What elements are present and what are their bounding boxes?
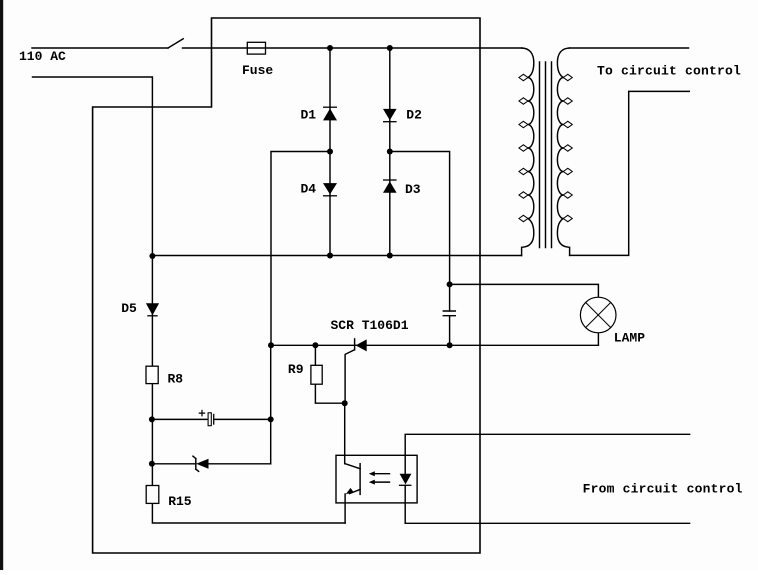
wire: secondary bottom lead up and right to circuit control — [570, 91, 690, 255]
opto LED triangle — [400, 474, 412, 485]
electrolytic capacitor C2 minus plate — [213, 414, 215, 425]
opto photon arrowheads — [369, 471, 375, 476]
SCR gate lead — [345, 350, 355, 404]
left screen border bar — [0, 0, 3, 570]
svg-text:D3: D3 — [405, 182, 421, 197]
optocoupler U1 box — [336, 455, 417, 503]
diode D1 — [323, 107, 337, 120]
wire: R9 bottom lead to gate node — [315, 384, 344, 403]
svg-text:LAMP: LAMP — [614, 331, 645, 346]
svg-text:110 AC: 110 AC — [19, 49, 66, 64]
wire: zener leads — [152, 463, 271, 465]
wire: electrolytic cap left lead — [152, 418, 208, 420]
transformer primary coupling diamonds — [519, 74, 528, 221]
resistor R15 body — [146, 486, 159, 504]
wire: snubber cap top segment — [449, 284, 451, 311]
wire: SCR anode-cathode rail — [271, 344, 598, 346]
wire: lamp top feed — [450, 284, 599, 297]
wire: 110 AC neutral + left column down to bottom — [33, 77, 346, 523]
opto emitter arrowhead — [346, 488, 354, 495]
svg-text:D4: D4 — [301, 182, 317, 197]
wire: snubber cap bottom segment — [449, 316, 451, 346]
wire: bridge mid-right tap to x=449.6 and down — [390, 152, 450, 285]
wire: bridge right column — [389, 48, 391, 256]
wire: bridge left column — [329, 48, 331, 256]
wire: hot to transformer primary — [183, 47, 522, 49]
wire: bridge mid-left tap to x=271 and down — [271, 152, 330, 346]
svg-text:R9: R9 — [288, 362, 304, 377]
opto LED cathode bar — [399, 484, 412, 486]
switch SW blade — [168, 39, 183, 48]
svg-text:SCR T106D1: SCR T106D1 — [331, 318, 409, 333]
electrolytic capacitor C2 plus plate box — [208, 413, 211, 426]
zener diode DZ cathode bar — [193, 456, 199, 471]
diode D5 — [146, 303, 159, 316]
transformer T1 core — [540, 62, 552, 248]
svg-text:From circuit control: From circuit control — [583, 482, 743, 497]
opto phototransistor emitter lead — [350, 489, 361, 493]
wire: opto emitter down to bottom rail — [344, 494, 346, 523]
svg-text:R15: R15 — [168, 494, 192, 509]
svg-text:D1: D1 — [301, 107, 317, 122]
SCR cathode bar — [354, 339, 356, 350]
resistor R8 body — [146, 366, 158, 383]
SCR T106D1 triangle — [356, 339, 367, 351]
opto phototransistor collector lead — [345, 464, 360, 469]
wire: secondary top lead to circuit control — [569, 47, 688, 49]
transformer T1 secondary winding — [557, 48, 569, 255]
svg-text:R8: R8 — [168, 371, 184, 386]
fuse F1 body — [247, 42, 265, 54]
wire: R9 top lead — [314, 345, 316, 365]
wire: lamp bottom return — [597, 333, 599, 345]
wire: electrolytic cap right lead — [214, 418, 271, 420]
capacitor C1 plates — [443, 311, 455, 316]
diode D3 — [383, 180, 397, 193]
wire: bottom rail of bridge to transformer primary bottom — [152, 255, 521, 257]
wire: opto LED anode from control input — [405, 434, 689, 473]
enclosure box with notched top-left — [93, 18, 480, 553]
opto photon arrow shafts — [374, 474, 390, 482]
resistor R9 body — [311, 365, 322, 384]
svg-text:D2: D2 — [406, 107, 422, 122]
diode D4 — [323, 183, 337, 196]
electrolytic capacitor plus sign — [199, 410, 206, 417]
wire: 110 AC hot lead — [32, 47, 168, 49]
wire: SCR gate down to optocoupler — [344, 403, 346, 464]
svg-text:Fuse: Fuse — [242, 63, 273, 78]
svg-text:To circuit control: To circuit control — [597, 64, 741, 79]
transformer T1 primary winding — [522, 48, 534, 256]
zener diode triangle — [196, 459, 208, 469]
diode D2 — [383, 109, 397, 122]
lamp circle — [580, 297, 616, 333]
wire: vertical x=271 from SCR rail to zener rail — [270, 345, 272, 464]
transformer secondary coupling diamonds — [563, 74, 572, 221]
svg-text:D5: D5 — [121, 301, 137, 316]
wire: opto LED cathode to control return — [405, 485, 689, 523]
opto phototransistor base bar — [359, 464, 361, 495]
